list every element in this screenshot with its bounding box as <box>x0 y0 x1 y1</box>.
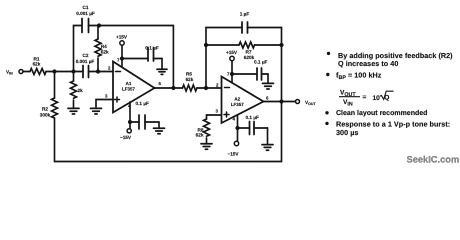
svg-text:0.001 µF: 0.001 µF <box>76 11 95 16</box>
ground A1 top bypass <box>157 59 167 75</box>
wire top feedback <box>99 26 173 89</box>
ground R3 <box>68 108 79 114</box>
junction dot A2 output <box>279 99 283 103</box>
wire R7 row right <box>255 44 282 46</box>
junction dot A2 pin4 <box>235 126 239 130</box>
svg-text:62k: 62k <box>101 49 109 54</box>
svg-text:C2: C2 <box>83 53 89 58</box>
svg-text:62k: 62k <box>196 133 204 138</box>
wire A2 output <box>264 101 296 103</box>
svg-text:7: 7 <box>117 58 120 63</box>
svg-text:A1: A1 <box>126 81 132 86</box>
capacitor C1 <box>82 19 99 33</box>
wire A1 pin3 to ground <box>96 100 113 109</box>
svg-text:2k: 2k <box>78 88 84 93</box>
svg-text:fBP = 100 kHz: fBP = 100 kHz <box>336 70 382 80</box>
resistor R6 <box>183 85 197 91</box>
junction dot R4 bottom <box>96 69 100 73</box>
svg-text:0.001 µF: 0.001 µF <box>76 59 95 64</box>
wire A1 pin7 <box>121 59 123 67</box>
notes bullet list <box>325 51 453 137</box>
+15V terminal A2 <box>230 56 234 74</box>
ground A1 pin3 <box>91 108 102 114</box>
wire R8 to ground <box>206 138 208 143</box>
resistor R1 <box>30 69 46 75</box>
svg-text:=: = <box>363 94 367 101</box>
junction dot C1 right <box>97 23 101 27</box>
svg-text:300 µs: 300 µs <box>336 128 358 137</box>
wire node A <box>46 71 83 73</box>
junction dot A1 pin7 <box>120 56 124 60</box>
wire bottom rail (positive feedback) <box>55 161 282 163</box>
node VOUT terminal <box>296 100 300 104</box>
svg-text:Q: Q <box>384 94 389 101</box>
resistor R7 <box>239 42 255 48</box>
svg-text:0.1 µF: 0.1 µF <box>136 101 150 106</box>
junction dot C1/R3 branch <box>71 69 75 73</box>
svg-text:2: 2 <box>108 66 111 71</box>
ground R8 <box>201 144 212 150</box>
wire A2 pin3 <box>207 115 222 119</box>
svg-text:Q increases to 40: Q increases to 40 <box>338 59 398 68</box>
wire R3 branch <box>73 72 75 82</box>
svg-text:1 µF: 1 µF <box>240 12 250 17</box>
capacitor 0.1uF A1 top <box>122 48 162 62</box>
junction dot A2 pin7 <box>230 72 234 76</box>
-15V terminal A1 <box>127 122 131 133</box>
resistor R2 <box>52 98 58 118</box>
-15V terminal A2 <box>234 128 238 146</box>
resistor R8 <box>204 119 210 136</box>
svg-text:300k: 300k <box>40 113 51 118</box>
wire A2 pin4 <box>237 115 239 128</box>
ground A1 bottom bypass <box>154 122 165 134</box>
svg-text:+15V: +15V <box>226 50 238 55</box>
svg-text:7: 7 <box>227 72 230 77</box>
A1 plus sign <box>115 97 120 102</box>
svg-text:VIN: VIN <box>343 99 353 108</box>
capacitor 0.1uF A2 top <box>232 68 268 80</box>
wire A2 pin7 <box>231 74 233 83</box>
wire VOUT node to bottom rail <box>281 102 283 162</box>
svg-text:LF357: LF357 <box>231 102 245 107</box>
svg-text:VOUT: VOUT <box>305 100 317 106</box>
node A junction dot <box>52 69 56 73</box>
wire R7 row left <box>206 44 239 46</box>
svg-text:0.1 µF: 0.1 µF <box>246 115 260 120</box>
op-amp A2 <box>222 77 264 124</box>
svg-text:62k: 62k <box>33 62 41 67</box>
junction dot A2 inv node <box>204 86 208 90</box>
junction dot R7 left <box>204 43 208 47</box>
junction dot A1 output <box>171 86 175 90</box>
A1 minus sign <box>116 71 121 73</box>
op-amp A1 <box>113 62 155 113</box>
formula VOUT/VIN = 10 sqrt(Q) <box>339 90 394 108</box>
svg-text:R7: R7 <box>246 50 252 55</box>
svg-text:VIN: VIN <box>6 70 13 76</box>
junction dot A1 pin4 <box>128 120 132 124</box>
wire R2 branch <box>54 72 56 99</box>
svg-text:LF357: LF357 <box>122 87 136 92</box>
capacitor C2 <box>83 66 113 78</box>
A2 minus sign <box>225 87 230 89</box>
resistor R3 <box>71 81 77 98</box>
wire A2 feedback left vertical <box>206 28 242 89</box>
svg-text:A2: A2 <box>234 96 240 101</box>
svg-text:4: 4 <box>233 116 236 121</box>
svg-text:6: 6 <box>159 81 162 86</box>
svg-text:62k: 62k <box>186 77 194 82</box>
svg-text:Clean layout recommended: Clean layout recommended <box>336 109 427 117</box>
svg-text:3: 3 <box>216 109 219 114</box>
svg-text:−15V: −15V <box>120 135 132 140</box>
svg-text:10: 10 <box>373 95 381 102</box>
svg-text:2: 2 <box>216 83 219 88</box>
svg-text:C1: C1 <box>83 5 89 10</box>
node VIN terminal <box>19 70 30 74</box>
wire R3 to ground <box>73 100 75 108</box>
capacitor 1uF <box>242 22 282 45</box>
capacitor 0.1uF A2 bottom <box>238 122 268 135</box>
svg-text:+15V: +15V <box>116 35 128 40</box>
wire R6 to A2 pin2 <box>197 87 222 89</box>
svg-text:3: 3 <box>105 94 108 99</box>
wire A1 output <box>155 87 183 89</box>
wire A1 pin4 <box>129 102 131 122</box>
svg-text:SeekIC.com: SeekIC.com <box>407 155 460 165</box>
junction dot R7 right <box>279 43 283 47</box>
wire feedback right vertical <box>281 45 283 102</box>
svg-text:0.1 µF: 0.1 µF <box>254 60 268 65</box>
wire C1 left branch <box>74 26 83 72</box>
svg-text:620k: 620k <box>244 55 255 60</box>
A2 plus sign <box>224 112 229 117</box>
resistor R4 <box>95 26 101 72</box>
+15V terminal A1 <box>120 41 124 59</box>
svg-text:R6: R6 <box>186 72 192 77</box>
svg-text:−15V: −15V <box>227 152 239 157</box>
svg-text:R2: R2 <box>42 106 48 111</box>
wire R2 to bottom rail <box>54 118 56 162</box>
ground A2 top bypass <box>263 74 274 89</box>
svg-text:0.1 µF: 0.1 µF <box>145 46 159 51</box>
capacitor 0.1uF A1 bottom <box>130 115 159 129</box>
svg-text:6: 6 <box>266 95 269 100</box>
ground A2 bottom bypass <box>262 128 273 150</box>
svg-text:R4: R4 <box>101 44 107 49</box>
